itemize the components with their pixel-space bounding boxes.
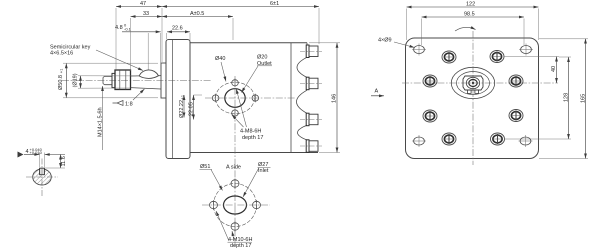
dim Ø22.22 vertical (183, 95, 185, 118)
inlet port ellipse Ø27 (224, 196, 247, 214)
shaft hex nut outline (463, 76, 483, 90)
rear tie bolt 3 centerline (300, 119, 322, 121)
extension line x162 pilot face (161, 8, 163, 62)
hex nut (115, 70, 131, 90)
corner hole TR Ø9 (521, 46, 532, 54)
rear tie bolt 3 washer (306, 113, 309, 126)
rear tie bolt 1 washer (306, 45, 309, 58)
extension line x166.5 flange face (166, 33, 168, 39)
svg-text:(Ø19): (Ø19) (73, 73, 79, 87)
dim Ø50.8 vertical line (65, 63, 67, 98)
dim 33 line (131, 16, 163, 18)
svg-text:4×Ø9: 4×Ø9 (378, 38, 392, 44)
dim 40 extension lines (504, 56, 559, 58)
rear tie bolt 1 head (309, 46, 318, 57)
corner hole BR Ø9 (520, 137, 531, 145)
front flange block (166, 40, 190, 159)
semicircular key crescent (139, 70, 159, 79)
bolt circle Ø51 dashed (214, 184, 257, 227)
svg-text:A±0.5: A±0.5 (190, 11, 204, 17)
dim 22.05 vertical (193, 95, 195, 120)
dim 47 line (116, 6, 162, 8)
svg-text:A side: A side (226, 165, 241, 171)
key leader (96, 50, 143, 71)
shaft horizontal centerline (402, 82, 558, 84)
4×Ø9 leader (394, 42, 415, 48)
rear tie bolt 1 centerline (300, 50, 322, 52)
svg-text:M14×1.5-6h: M14×1.5-6h (98, 107, 104, 137)
shaft centerline (62, 80, 212, 82)
dim 165 extension lines (539, 38, 588, 40)
svg-text:4-M8-6H: 4-M8-6H (240, 129, 261, 135)
rear tie bolt 2 centerline (300, 83, 322, 85)
center ring outer (451, 67, 494, 98)
nut facet lines (119, 70, 121, 90)
lock washer tabs (468, 90, 472, 93)
M14 thread leader line (102, 86, 104, 150)
hatched shaft section circle (33, 169, 52, 185)
dim 4 extension lines from key (39, 153, 41, 168)
dim 22.6 line (167, 31, 190, 33)
svg-text:depth 17: depth 17 (242, 135, 263, 141)
svg-text:47: 47 (140, 1, 146, 7)
rear cover joint line (290, 43, 292, 153)
svg-text:22.6: 22.6 (172, 26, 183, 32)
rear tie bolt 4 washer (306, 140, 309, 153)
thread M14 cylinder (103, 76, 112, 84)
svg-text:11.6: 11.6 (61, 156, 67, 166)
corner hole BL Ø9 (414, 137, 425, 145)
M8 leader to S hole (232, 115, 244, 127)
A-side horizontal centerline (202, 204, 270, 206)
svg-text:98.5: 98.5 (464, 12, 475, 18)
dim 122 extension lines (406, 9, 408, 41)
flange plate (406, 38, 539, 159)
svg-text:22.05: 22.05 (189, 102, 195, 116)
screw 2 (497,56.5) (490, 51, 504, 63)
center ring inner (457, 72, 490, 95)
M10 hole N (231, 180, 239, 187)
section horizontal centerline (26, 176, 58, 178)
key cross-section rectangle (40, 168, 45, 175)
Ø40 leader (221, 62, 226, 82)
Ø20 leader (242, 66, 259, 93)
dim 11.6 vertical line (60, 155, 62, 169)
flange/front cover joint line (172, 40, 174, 159)
svg-text:Inlet: Inlet (258, 168, 269, 174)
rear profile between bolts (concave) (297, 43, 308, 153)
svg-text:146: 146 (332, 94, 338, 103)
svg-text:Ø50.8 ₊₁: Ø50.8 ₊₁ (58, 69, 64, 90)
dim 128 extension lines (504, 138, 571, 140)
dim (Ø19) extension lines (78, 75, 136, 77)
dim (Ø19) vertical line (80, 76, 82, 88)
M8 hole E (252, 95, 259, 101)
tapered shaft body 1:8 (131, 76, 162, 89)
extension line x319 bolt end (318, 8, 320, 44)
screw 3 (430,81) (423, 75, 437, 87)
outlet port center circle Ø20 (225, 89, 245, 108)
svg-text:depth 17: depth 17 (230, 243, 251, 249)
rotation arrow arc (455, 27, 476, 31)
screw 1 (449,57) (442, 51, 456, 63)
svg-text:33: 33 (143, 11, 149, 17)
Ø27 leader (243, 168, 259, 197)
screw 7 (449,139) (442, 133, 456, 145)
svg-text:4×6.5×16: 4×6.5×16 (50, 51, 73, 57)
dim 6±1 line (162, 6, 319, 8)
svg-text:165: 165 (581, 94, 587, 103)
M8 hole N (232, 80, 239, 86)
rear tie bolt 2 washer (306, 77, 309, 90)
svg-text:Ø51: Ø51 (200, 164, 210, 170)
svg-text:4: 4 (26, 149, 29, 155)
dim 4 +0.040/+0.010 line with arrows (24, 154, 39, 156)
port vertical centerline down to A-side view (234, 76, 236, 247)
svg-text:122: 122 (466, 2, 475, 8)
bolt circle Ø40 dashed (216, 82, 255, 114)
port horizontal centerline (205, 97, 296, 99)
M8 hole W (212, 95, 219, 101)
svg-text:6±1: 6±1 (270, 1, 279, 7)
rear tie bolt 3 head (309, 114, 318, 125)
svg-text:1:8: 1:8 (125, 101, 133, 107)
dim 98.5 extension lines (421, 19, 423, 46)
rear tie bolt 4 head (309, 141, 318, 152)
washer at nut left face (112, 73, 115, 87)
section vertical centerline (41, 159, 43, 197)
M10 hole W (210, 201, 218, 208)
M10 hole E (253, 201, 261, 208)
rear tie bolt 2 head (309, 78, 318, 89)
rear tie bolt 4 centerline (300, 145, 322, 147)
Ø51 leader (211, 170, 223, 191)
M10 hole S (231, 223, 239, 230)
svg-text:A: A (375, 89, 379, 95)
pilot boss Ø50.8 (161, 63, 166, 98)
svg-text:+0.010: +0.010 (30, 150, 43, 155)
shaft rings (466, 77, 479, 88)
main body outline (190, 43, 318, 153)
dim Ø50.8 extension lines (63, 62, 158, 64)
screw 6 (516,115.5) (509, 110, 523, 122)
extension line x116 to nut (115, 8, 117, 71)
dim 98.5 line (422, 16, 525, 18)
corner hole TL Ø9 (414, 46, 425, 54)
M8 hole S (232, 110, 239, 116)
M10 leader to S hole (232, 231, 234, 241)
M10 leader to W hole (216, 211, 229, 241)
svg-text:128: 128 (564, 93, 570, 102)
view direction arrow (371, 95, 384, 97)
dim 122 line (407, 6, 539, 8)
screw 8 (497.5,139) (491, 133, 505, 145)
dim 165 vertical (585, 39, 587, 159)
taper 1:8 label (113, 101, 124, 106)
screw 4 (516,81) (509, 75, 523, 87)
extension line x233 port center (232, 18, 234, 40)
dim 11.6 extension lines (45, 167, 65, 169)
extension line x160.7 key end (160, 33, 162, 71)
svg-text:Ø20: Ø20 (257, 55, 267, 61)
taper leader arrow (133, 89, 145, 100)
dim 128 vertical (568, 57, 570, 139)
vertical centerline (472, 31, 474, 165)
extension line x190 body joint (189, 33, 191, 42)
extension line x130.5 to nut (130, 18, 132, 71)
dim 146 extension lines (309, 42, 340, 44)
svg-text:Ø40: Ø40 (215, 56, 225, 62)
svg-text:Ø22.22₊₁: Ø22.22₊₁ (179, 95, 185, 118)
svg-text:40: 40 (551, 66, 557, 72)
dim 40 vertical (556, 57, 558, 84)
screw 5 (430,116) (423, 110, 437, 122)
M8 leader to W hole (236, 89, 246, 127)
dim 146 vertical line (336, 43, 338, 153)
dim A±0.5 line (162, 16, 233, 18)
